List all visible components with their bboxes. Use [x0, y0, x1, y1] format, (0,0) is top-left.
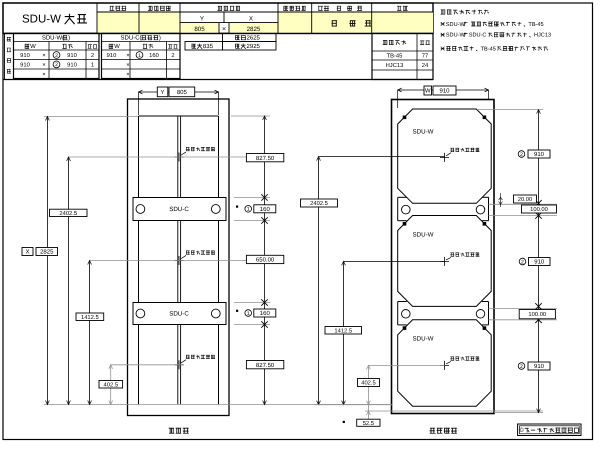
svg-text:2: 2 — [520, 364, 523, 370]
svg-text:1412.5: 1412.5 — [81, 314, 99, 321]
top dimension W 910 — [398, 86, 489, 108]
svg-text:HJC13: HJC13 — [534, 33, 551, 39]
left dims of frame drawing — [44, 117, 283, 405]
header labels — [110, 6, 408, 33]
dim 827.50 lower — [246, 361, 283, 369]
svg-text:2402.5: 2402.5 — [310, 200, 328, 207]
svg-text:SDU-W: SDU-W — [413, 232, 434, 239]
svg-text:SDU-W: SDU-W — [22, 14, 61, 26]
svg-text:TB-45: TB-45 — [481, 46, 496, 52]
svg-text:Y: Y — [161, 89, 165, 96]
svg-text:827.50: 827.50 — [256, 155, 275, 162]
svg-text:160: 160 — [260, 310, 271, 317]
right dimension line of frame — [231, 116, 270, 405]
svg-text:2825: 2825 — [247, 26, 261, 33]
dim 650.00 — [246, 255, 283, 263]
frame drawing caption — [169, 428, 189, 434]
svg-text:805: 805 — [194, 26, 205, 33]
dim 402.5 frame — [99, 381, 123, 389]
svg-text:402.5: 402.5 — [104, 381, 119, 388]
svg-text:2: 2 — [55, 62, 58, 68]
svg-text:©: © — [519, 427, 524, 434]
svg-text:2: 2 — [171, 52, 174, 59]
nail position marks frame — [175, 147, 215, 369]
svg-text:910: 910 — [439, 88, 450, 95]
svg-text:910: 910 — [534, 363, 545, 370]
frame drawing outer rect — [128, 99, 230, 416]
svg-text:2625: 2625 — [247, 35, 261, 42]
svg-text:2: 2 — [55, 53, 58, 59]
svg-text:2: 2 — [91, 52, 94, 59]
svg-text:SDU-W: SDU-W — [413, 129, 434, 136]
svg-text:SDU-W: SDU-W — [446, 33, 466, 39]
svg-text:2825: 2825 — [40, 249, 54, 256]
dim 160 lower — [236, 309, 276, 317]
svg-text:2: 2 — [520, 152, 523, 158]
svg-text:805: 805 — [177, 89, 188, 96]
svg-text:1: 1 — [247, 207, 250, 213]
frame drawing inner opening — [139, 116, 219, 405]
svg-text:2: 2 — [521, 259, 524, 265]
svg-text:827.50: 827.50 — [256, 362, 275, 369]
svg-text:SDU-C: SDU-C — [169, 311, 189, 318]
svg-text:SDU-C(: SDU-C( — [121, 35, 142, 42]
dim 1412.5 wall — [325, 327, 362, 335]
notes about screws — [440, 10, 551, 53]
svg-text:SDU-C: SDU-C — [169, 206, 189, 213]
svg-text:SDU-W: SDU-W — [446, 22, 466, 28]
screw quantity table — [372, 33, 433, 79]
svg-text:100.00: 100.00 — [530, 206, 548, 213]
svg-text:650.00: 650.00 — [256, 257, 275, 264]
dim 100.00 second — [519, 310, 555, 319]
svg-text:77: 77 — [422, 54, 428, 60]
svg-text:910: 910 — [534, 259, 545, 266]
svg-text:×: × — [126, 53, 129, 59]
svg-text:910: 910 — [67, 52, 77, 59]
svg-text:TB-45: TB-45 — [387, 54, 403, 60]
dim 402.5 wall — [358, 379, 380, 387]
svg-text:×: × — [126, 62, 129, 68]
svg-text:×: × — [126, 72, 129, 78]
svg-text:1: 1 — [247, 311, 250, 317]
svg-text:835: 835 — [203, 43, 214, 50]
dim 2402.5 frame — [50, 209, 88, 217]
svg-text:402.5: 402.5 — [361, 380, 376, 387]
svg-text:160: 160 — [260, 206, 271, 213]
material usage table — [3, 33, 433, 79]
right dims of wall drawing — [477, 110, 557, 413]
dim 1412.5 frame — [76, 313, 104, 321]
company stamp — [518, 424, 581, 436]
svg-text:1: 1 — [91, 62, 94, 68]
SDU-W panel 2 — [398, 216, 492, 307]
left dims of wall drawing — [314, 157, 543, 419]
svg-text:W: W — [30, 43, 36, 50]
dim 160 upper — [236, 205, 276, 213]
svg-text:910: 910 — [107, 52, 117, 59]
svg-text:SDU-C: SDU-C — [469, 33, 487, 39]
svg-text:2402.5: 2402.5 — [59, 210, 77, 217]
wall drawing caption — [430, 428, 457, 434]
svg-text:20.00: 20.00 — [518, 196, 533, 203]
SDU-C bar 2 — [133, 303, 226, 325]
dim 910 third — [518, 362, 550, 370]
svg-text:×: × — [222, 26, 226, 33]
svg-text:W: W — [114, 43, 120, 50]
dim 100.00 first — [522, 205, 557, 213]
svg-text:×: × — [42, 53, 45, 59]
svg-text:1412.5: 1412.5 — [334, 327, 352, 334]
svg-text:910: 910 — [20, 52, 30, 59]
svg-text:160: 160 — [149, 52, 159, 59]
wall drawing outer rect — [392, 100, 495, 414]
svg-text:W: W — [425, 88, 431, 95]
dim 910 second — [519, 258, 550, 266]
svg-text:X: X — [25, 249, 29, 256]
svg-text:Y: Y — [200, 16, 204, 23]
svg-text:910: 910 — [534, 151, 545, 158]
svg-text:SDU-W: SDU-W — [413, 336, 434, 343]
svg-text:100.00: 100.00 — [528, 311, 546, 318]
joint bar 1 — [398, 197, 489, 220]
svg-text:910: 910 — [67, 61, 77, 68]
top dimension Y 805 — [139, 87, 219, 115]
dim 20.00 — [514, 195, 537, 203]
title SDU-W 大壁 — [22, 14, 87, 26]
svg-text:×: × — [42, 62, 45, 68]
SDU-W panel 1 — [398, 109, 492, 203]
svg-text:52.5: 52.5 — [363, 420, 374, 427]
svg-text:): ) — [159, 35, 161, 42]
svg-text:TB-45: TB-45 — [528, 22, 543, 28]
dim 2402.5 wall — [301, 199, 338, 207]
svg-text:910: 910 — [20, 61, 30, 68]
SDU-W panel 3 — [398, 320, 492, 406]
svg-text:2925: 2925 — [247, 43, 261, 50]
dim 52.5 wall — [343, 419, 380, 427]
svg-text:X: X — [249, 16, 253, 23]
svg-text:×: × — [42, 72, 45, 78]
svg-text:): ) — [68, 35, 70, 42]
svg-text:24: 24 — [422, 62, 429, 69]
bottom reference line — [44, 404, 392, 406]
svg-text:1: 1 — [138, 53, 141, 59]
dim 827.50 upper — [246, 154, 283, 162]
dim X 2825 — [22, 248, 58, 256]
dim 910 first — [518, 150, 550, 158]
SDU-C bar 1 — [133, 198, 226, 221]
joint bar 2 — [398, 302, 489, 325]
header table grid — [3, 3, 433, 33]
panel joint double line — [178, 116, 181, 405]
svg-text:HJC13: HJC13 — [386, 62, 404, 69]
svg-text:SDU-W(: SDU-W( — [42, 35, 64, 42]
